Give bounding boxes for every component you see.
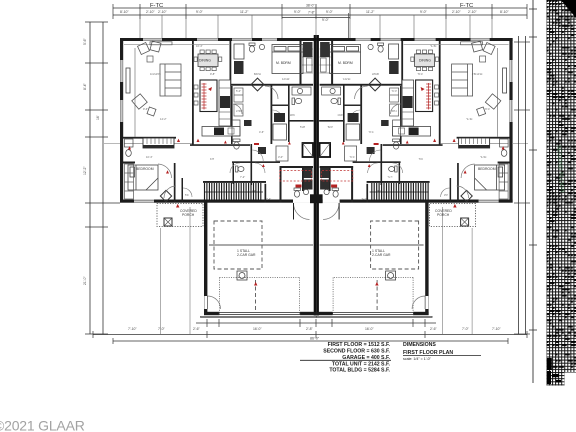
svg-text:38'-0": 38'-0" xyxy=(306,4,315,8)
svg-text:DIMENSIONS: DIMENSIONS xyxy=(403,342,436,348)
top dim small labels xyxy=(120,4,509,15)
porch extension lines xyxy=(161,207,473,334)
svg-text:21'-0": 21'-0" xyxy=(83,276,87,285)
top dimension ticks xyxy=(113,4,527,19)
svg-text:11'-2": 11'-2" xyxy=(240,10,249,14)
svg-text:7'-10": 7'-10" xyxy=(492,327,501,331)
bottom dimension row garage xyxy=(196,322,436,324)
svg-text:7'-10": 7'-10" xyxy=(128,327,137,331)
strip dark cells xyxy=(547,0,576,368)
svg-text:M. BDRM: M. BDRM xyxy=(338,61,353,65)
svg-text:86'-0": 86'-0" xyxy=(310,337,320,341)
svg-text:2'-10": 2'-10" xyxy=(468,10,477,14)
room labels xyxy=(136,59,496,258)
svg-text:16'-0": 16'-0" xyxy=(253,327,262,331)
svg-text:2-CAR GAR: 2-CAR GAR xyxy=(237,253,256,257)
svg-text:2'-8": 2'-8" xyxy=(306,327,314,331)
svg-text:2-CAR GAR: 2-CAR GAR xyxy=(372,253,391,257)
svg-text:BEDROOM: BEDROOM xyxy=(136,167,154,171)
top dimension line B xyxy=(113,14,527,16)
svg-text:7'-0": 7'-0" xyxy=(462,327,470,331)
svg-text:8'-10": 8'-10" xyxy=(500,10,509,14)
right dimension lines xyxy=(518,36,520,334)
svg-text:SECOND FLOOR = 630 S.F.: SECOND FLOOR = 630 S.F. xyxy=(323,349,390,355)
svg-text:DINING: DINING xyxy=(419,59,431,63)
left dimension lines xyxy=(89,22,91,334)
svg-text:9'-0": 9'-0" xyxy=(322,18,330,22)
svg-text:12'-2": 12'-2" xyxy=(83,166,87,175)
svg-text:9'-0": 9'-0" xyxy=(420,10,428,14)
svg-text:PORCH: PORCH xyxy=(182,213,195,217)
svg-text:7'-8": 7'-8" xyxy=(308,11,316,15)
svg-text:FIRST FLOOR = 1512 S.F.: FIRST FLOOR = 1512 S.F. xyxy=(328,342,391,348)
svg-text:©2021 GLAAR: ©2021 GLAAR xyxy=(0,418,85,432)
svg-text:7'-0": 7'-0" xyxy=(158,327,166,331)
left unit xyxy=(120,35,316,317)
area tabulation text xyxy=(323,342,390,374)
svg-text:scale: 1/4" = 1'-0": scale: 1/4" = 1'-0" xyxy=(403,357,432,361)
svg-text:TOTAL BLDG = 5284 S.F.: TOTAL BLDG = 5284 S.F. xyxy=(329,368,390,374)
top dimension line A xyxy=(113,7,527,9)
svg-text:PORCH: PORCH xyxy=(437,213,450,217)
svg-text:2'-10": 2'-10" xyxy=(146,10,155,14)
right unit (mirror) xyxy=(316,35,512,317)
svg-text:DINING: DINING xyxy=(199,59,211,63)
svg-text:BEDROOM: BEDROOM xyxy=(478,167,496,171)
schedule strip grid xyxy=(547,0,576,373)
svg-text:F-TC: F-TC xyxy=(460,3,473,9)
svg-text:5'-6": 5'-6" xyxy=(83,37,87,45)
far right dimension line xyxy=(532,0,534,383)
title text xyxy=(403,342,453,361)
svg-text:9'-0": 9'-0" xyxy=(294,10,302,14)
strip corner black triangle xyxy=(561,0,576,18)
svg-text:8'-10": 8'-10" xyxy=(120,10,129,14)
svg-text:2'-10": 2'-10" xyxy=(158,10,167,14)
svg-text:9'-0": 9'-0" xyxy=(326,10,334,14)
svg-text:2'-6": 2'-6" xyxy=(193,327,201,331)
svg-text:F-TC: F-TC xyxy=(150,3,163,9)
svg-text:8'-4": 8'-4" xyxy=(83,82,87,90)
svg-text:9'-0": 9'-0" xyxy=(196,10,204,14)
top extension lines to wall xyxy=(140,15,492,38)
svg-text:M. BDRM: M. BDRM xyxy=(276,61,291,65)
bottom overall dimension lines xyxy=(93,334,527,336)
svg-text:16': 16' xyxy=(96,115,100,120)
svg-text:16'-0": 16'-0" xyxy=(365,327,374,331)
svg-text:2'-10": 2'-10" xyxy=(452,10,461,14)
svg-text:11'-2": 11'-2" xyxy=(366,10,375,14)
svg-text:2'-6": 2'-6" xyxy=(430,327,438,331)
